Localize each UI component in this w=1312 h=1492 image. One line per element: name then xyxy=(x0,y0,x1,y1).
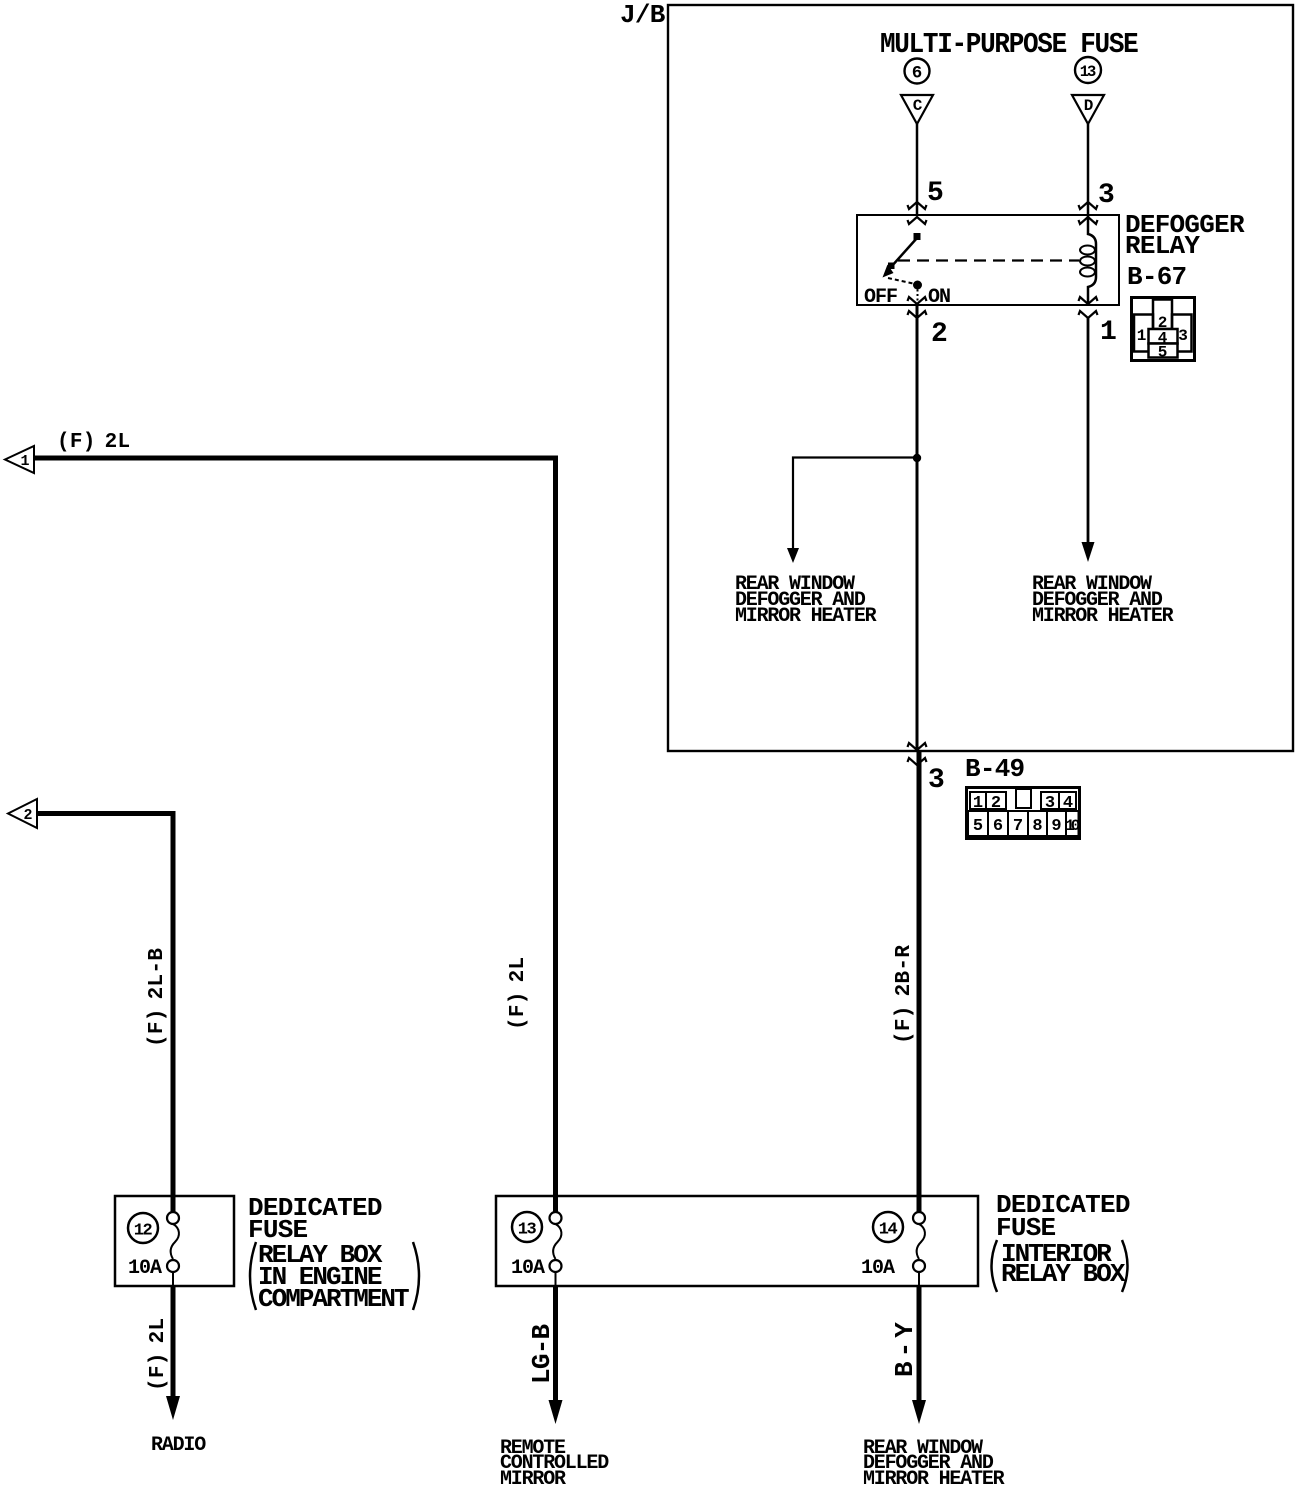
page connector arrow 2 xyxy=(8,799,37,828)
svg-text:B-67: B-67 xyxy=(1127,262,1186,292)
svg-text:1: 1 xyxy=(1100,317,1117,348)
svg-text:B-49: B-49 xyxy=(965,754,1025,784)
relay actuation dashed line xyxy=(898,259,1079,261)
interior relay box xyxy=(496,1196,978,1286)
svg-text:13: 13 xyxy=(1080,63,1096,81)
svg-text:(F) 2L: (F) 2L xyxy=(507,957,530,1030)
svg-text:(F) 2B-R: (F) 2B-R xyxy=(893,945,916,1044)
svg-text:1: 1 xyxy=(20,453,29,470)
wire relay pin 2 down to J/B bottom xyxy=(916,305,919,752)
junction node xyxy=(913,454,921,462)
svg-text:5: 5 xyxy=(973,817,983,836)
svg-text:RELAY: RELAY xyxy=(1125,231,1200,261)
wire D to relay pin 3 xyxy=(1087,124,1090,215)
svg-text:MULTI-PURPOSE FUSE: MULTI-PURPOSE FUSE xyxy=(880,29,1138,61)
wire fuse 12 to RADIO xyxy=(166,1286,180,1420)
svg-text:ON: ON xyxy=(928,286,950,309)
pin 3 chevrons xyxy=(1079,202,1098,224)
connector B-67 pin diagram xyxy=(1132,298,1195,362)
svg-text:(F) 2L: (F) 2L xyxy=(147,1318,170,1391)
fuse 13 element xyxy=(550,1212,562,1287)
connector terminal D triangle xyxy=(1072,95,1104,124)
wire arrow1 to fuse 13 xyxy=(34,458,556,1212)
connector B-49 pin diagram xyxy=(967,788,1080,839)
wire C to relay pin 5 xyxy=(916,124,919,215)
svg-text:13: 13 xyxy=(518,1221,537,1240)
svg-text:(F) 2L-B: (F) 2L-B xyxy=(146,948,169,1047)
svg-text:B-Y: B-Y xyxy=(890,1318,920,1377)
svg-text:14: 14 xyxy=(879,1221,898,1240)
REAR WINDOW DEFOGGER AND MIRROR HEATER label xyxy=(863,1437,1005,1491)
DEDICATED FUSE (INTERIOR RELAY BOX) label xyxy=(992,1190,1130,1292)
J/B junction block box xyxy=(668,5,1293,751)
svg-text:MIRROR HEATER: MIRROR HEATER xyxy=(863,1468,1005,1491)
svg-text:10A: 10A xyxy=(861,1257,895,1280)
svg-text:OFF: OFF xyxy=(864,286,897,309)
connector terminal C triangle xyxy=(901,95,933,124)
relay switch xyxy=(883,233,923,305)
page connector arrow 1 xyxy=(5,446,34,473)
left REAR WINDOW DEFOGGER label xyxy=(735,573,877,628)
pin 1 chevrons xyxy=(1079,297,1098,318)
wire fuse 14 to rear window defogger xyxy=(912,1286,926,1424)
wire arrow2 to fuse 12 xyxy=(37,814,173,1213)
defogger relay box B-67 xyxy=(857,215,1119,305)
svg-text:10A: 10A xyxy=(128,1257,162,1280)
svg-text:7: 7 xyxy=(1013,817,1023,836)
wire fuse 13 to remote mirror xyxy=(549,1286,563,1424)
relay coil xyxy=(1080,215,1096,305)
REMOTE CONTROLLED MIRROR label xyxy=(500,1437,609,1491)
svg-text:C: C xyxy=(913,97,923,115)
svg-text:6: 6 xyxy=(993,817,1003,836)
svg-text:10A: 10A xyxy=(511,1257,545,1280)
fuse 12 id circle xyxy=(128,1213,158,1243)
svg-text:5: 5 xyxy=(1158,344,1168,362)
svg-text:J/B: J/B xyxy=(620,0,666,30)
svg-text:12: 12 xyxy=(134,1222,153,1241)
svg-text:MIRROR HEATER: MIRROR HEATER xyxy=(1032,605,1174,628)
right arrowhead xyxy=(1082,542,1095,562)
svg-text:RELAY BOX: RELAY BOX xyxy=(1001,1259,1126,1289)
wire relay pin 1 down xyxy=(1087,318,1090,543)
svg-text:MIRROR: MIRROR xyxy=(500,1468,566,1491)
svg-text:2: 2 xyxy=(931,319,948,350)
svg-text:9: 9 xyxy=(1051,817,1061,836)
svg-text:LG-B: LG-B xyxy=(527,1323,557,1384)
fuse 14 element xyxy=(913,1212,925,1287)
DEFOGGER RELAY label xyxy=(1125,210,1245,261)
fuse 13 id circle xyxy=(512,1212,542,1242)
svg-text:D: D xyxy=(1084,97,1093,115)
wire B-49 down to fuse 14 xyxy=(917,752,922,1212)
svg-text:3: 3 xyxy=(1178,327,1188,345)
J/B bottom crossing chevrons xyxy=(908,743,927,765)
svg-text:2: 2 xyxy=(23,807,32,824)
fuse number 13 circle xyxy=(1075,57,1101,83)
DEDICATED FUSE (RELAY BOX IN ENGINE COMPARTMENT) label xyxy=(248,1193,419,1314)
svg-text:5: 5 xyxy=(927,178,944,209)
fuse 14 id circle xyxy=(873,1212,903,1242)
engine compartment relay box xyxy=(115,1196,234,1286)
svg-text:COMPARTMENT: COMPARTMENT xyxy=(258,1284,409,1314)
svg-text:8: 8 xyxy=(1032,817,1042,836)
pin 2 chevrons xyxy=(908,297,927,318)
fuse number 6 circle xyxy=(905,59,930,84)
svg-text:3: 3 xyxy=(1098,180,1115,211)
svg-text:1: 1 xyxy=(1137,327,1147,345)
svg-text:MIRROR HEATER: MIRROR HEATER xyxy=(735,605,877,628)
fuse 12 element xyxy=(167,1212,179,1287)
svg-text:6: 6 xyxy=(912,64,923,84)
branch wire to left rear window defogger xyxy=(793,458,917,550)
pin 5 chevrons xyxy=(908,202,927,224)
branch arrowhead xyxy=(787,548,799,563)
right REAR WINDOW DEFOGGER label xyxy=(1032,573,1174,628)
svg-text:3: 3 xyxy=(928,765,945,796)
svg-text:(F) 2L: (F) 2L xyxy=(57,431,130,454)
svg-text:RADIO: RADIO xyxy=(151,1434,206,1457)
